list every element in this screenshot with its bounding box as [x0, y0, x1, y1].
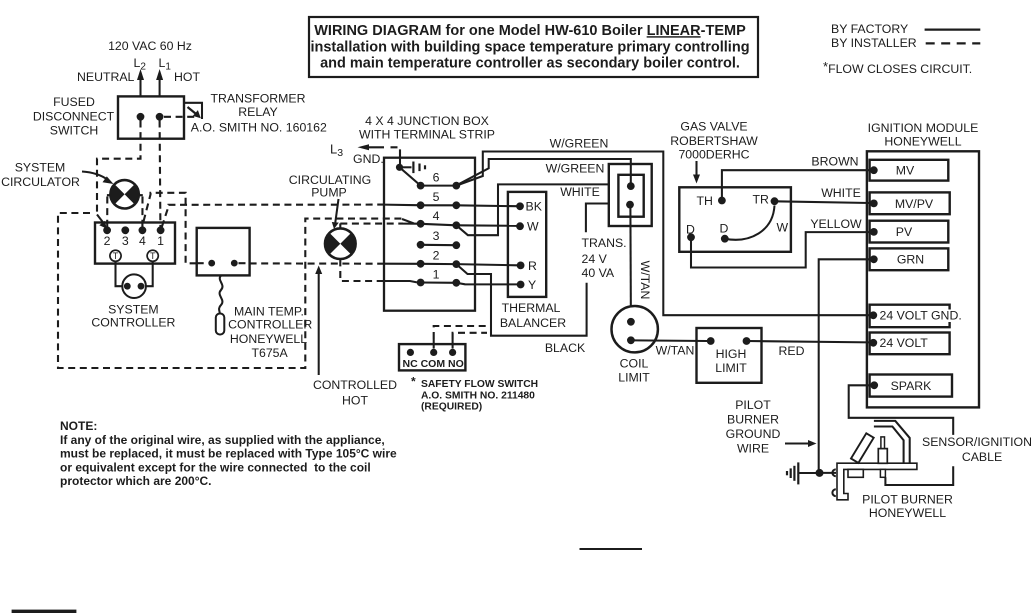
wire: dashed pump bottom stub down to junction row 1	[340, 259, 384, 281]
svg-text:WIRING DIAGRAM for one Model H: WIRING DIAGRAM for one Model HW-610 Boil…	[314, 23, 746, 39]
svg-text:WITH TERMINAL STRIP: WITH TERMINAL STRIP	[359, 128, 495, 142]
svg-text:HOT: HOT	[174, 70, 200, 84]
svg-text:If any of the original wire, a: If any of the original wire, as supplied…	[60, 433, 385, 447]
svg-text:FUSED: FUSED	[53, 95, 95, 109]
T terminal left	[110, 250, 121, 261]
legend: BY INSTALLER dashed line	[831, 36, 980, 50]
title box	[309, 17, 758, 77]
svg-text:GRN: GRN	[897, 253, 924, 267]
svg-text:6: 6	[433, 171, 440, 185]
ignition module outer box	[867, 151, 979, 407]
svg-text:40 VA: 40 VA	[582, 266, 615, 280]
wire: neutral dashed from left dot down-left-down to system controller 2	[97, 121, 141, 229]
circulating pump	[325, 228, 356, 259]
wire: sensor cable lower segment to igniter	[885, 466, 953, 485]
svg-text:TRANS.: TRANS.	[582, 236, 627, 250]
svg-text:MV: MV	[896, 164, 915, 178]
svg-text:(REQUIRED): (REQUIRED)	[421, 402, 482, 413]
svg-text:1: 1	[157, 234, 164, 248]
svg-text:T675A: T675A	[251, 346, 288, 360]
wire: YELLOW from D down around to PV	[691, 232, 870, 267]
bottom left black bar	[12, 610, 77, 613]
svg-text:R: R	[528, 259, 537, 273]
svg-text:W/TAN: W/TAN	[638, 261, 652, 300]
svg-text:TH: TH	[697, 194, 713, 208]
legend: BY FACTORY solid line	[831, 22, 980, 36]
wire: hot dashed from right dot down to system controller 1	[159, 121, 162, 227]
wire: terminal 2 to R	[456, 264, 517, 265]
svg-text:W/GREEN: W/GREEN	[546, 162, 605, 176]
wire: dashed pump right tab down to controller terminal 4	[141, 197, 143, 227]
wire: RED from high limit to 24 VOLT	[747, 341, 871, 342]
svg-text:WHITE: WHITE	[821, 186, 861, 200]
terminal MV/PV	[870, 192, 950, 214]
wire: solid row4 tail into junction box	[402, 219, 417, 224]
plug outlet symbol	[122, 274, 146, 298]
svg-text:4: 4	[139, 234, 146, 248]
svg-text:SYSTEM: SYSTEM	[15, 161, 66, 175]
svg-text:T: T	[113, 251, 119, 261]
svg-text:RED: RED	[779, 344, 805, 358]
wire: SPARK to sensor/ignition cable	[849, 385, 954, 435]
label PILOT BURNER GROUND WIRE	[726, 398, 781, 456]
wire L2 riser with up arrow	[137, 69, 144, 96]
label SENSOR/IGNITION CABLE	[922, 435, 1031, 464]
label MAIN TEMP. CONTROLLER HONEYWELL T675A	[228, 304, 312, 360]
wire: dashed pump top stub	[339, 223, 341, 228]
terminal MV	[870, 160, 949, 181]
pilot burner assembly	[832, 421, 917, 500]
svg-text:installation with building spa: installation with building space tempera…	[310, 39, 749, 55]
svg-text:PILOT BURNER: PILOT BURNER	[862, 493, 953, 507]
svg-text:LIMIT: LIMIT	[618, 371, 650, 385]
svg-text:BK: BK	[526, 200, 543, 214]
wire: GRN terminal to pilot ground riser	[819, 259, 870, 470]
svg-text:SPARK: SPARK	[891, 379, 933, 393]
svg-text:BY INSTALLER: BY INSTALLER	[831, 36, 917, 50]
svg-text:CIRCULATOR: CIRCULATOR	[1, 175, 80, 189]
transformer junction block outer	[609, 164, 652, 226]
safety flow switch	[399, 344, 465, 370]
svg-text:A.O. SMITH NO. 160162: A.O. SMITH NO. 160162	[191, 121, 327, 135]
svg-text:GND.: GND.	[353, 152, 384, 166]
terminal 4	[417, 209, 460, 229]
gas valve	[679, 187, 791, 252]
label CIRCULATING PUMP	[289, 173, 371, 200]
svg-text:W: W	[777, 221, 789, 235]
svg-text:HOT: HOT	[342, 394, 368, 408]
wire: W/GREEN no.2 from terminal 6 to transformer top	[458, 159, 631, 185]
wire: dashed from main temp controller right to junction row 2	[250, 262, 384, 264]
svg-text:NOTE:: NOTE:	[60, 419, 97, 433]
svg-text:HONEYWELL: HONEYWELL	[884, 135, 961, 149]
wire: right T to plug	[145, 261, 153, 286]
label FUSED DISCONNECT SWITCH	[33, 95, 115, 138]
svg-text:DISCONNECT: DISCONNECT	[33, 110, 115, 124]
thermal balancer	[508, 192, 546, 297]
svg-text:WHITE: WHITE	[560, 185, 600, 199]
svg-text:*: *	[411, 375, 416, 389]
svg-text:5: 5	[433, 190, 440, 204]
svg-text:BALANCER: BALANCER	[500, 316, 566, 330]
wire: L3 dashed entry with left arrow	[358, 144, 401, 164]
svg-text:24 V: 24 V	[582, 252, 608, 266]
transformer relay symbol (bracket and arrow)	[184, 103, 202, 119]
svg-text:W/TAN: W/TAN	[656, 344, 695, 358]
svg-text:D: D	[686, 223, 695, 237]
arrow ground wire pointer	[785, 440, 817, 447]
high limit	[697, 328, 762, 383]
wire: dashed diagonal from terminal 1 up to junction row 5 run	[162, 205, 384, 227]
svg-text:TR: TR	[753, 193, 770, 207]
svg-text:must be replaced, it must be r: must be replaced, it must be replaced wi…	[60, 447, 397, 461]
svg-text:HONEYWELL: HONEYWELL	[230, 332, 307, 346]
wire: W/GREEN no.1 from terminal 6 to 24 VOLT GND terminal	[456, 152, 870, 316]
transformer bottom dot	[626, 201, 634, 209]
svg-text:LIMIT: LIMIT	[715, 361, 747, 375]
svg-text:YELLOW: YELLOW	[810, 217, 862, 231]
pin labels 2 3 4 1	[104, 234, 165, 248]
wire: terminal 1 to Y	[456, 283, 517, 285]
T terminal right	[147, 250, 158, 261]
label PILOT BURNER HONEYWELL	[862, 493, 953, 521]
svg-text:CONTROLLER: CONTROLLER	[91, 316, 175, 330]
main temp controller sensing bulb	[216, 314, 225, 335]
wire: junction to pilot bracket	[820, 472, 837, 474]
svg-text:3: 3	[433, 229, 440, 243]
junction box	[384, 158, 475, 311]
svg-text:IGNITION MODULE: IGNITION MODULE	[868, 121, 979, 135]
svg-text:W/GREEN: W/GREEN	[550, 137, 609, 151]
terminal 24 VOLT	[869, 333, 949, 355]
label CONTROLLED HOT	[313, 378, 397, 408]
svg-text:120 VAC 60 Hz: 120 VAC 60 Hz	[108, 39, 192, 53]
terminal 24 VOLT GND.	[869, 305, 961, 328]
svg-text:WIRE: WIRE	[737, 442, 769, 456]
svg-text:CONTROLLER: CONTROLLER	[228, 318, 312, 332]
wire: dashed from relay contact right dot to relay arrow	[164, 116, 196, 118]
wire: solid row1 tail into junction box	[384, 281, 417, 282]
label SYSTEM CIRCULATOR	[1, 161, 80, 189]
wire: solid row5 tail into junction box	[384, 204, 417, 207]
wire: dashed pump left tab down to controller terminal 2	[106, 197, 108, 227]
chassis ground symbol	[787, 462, 816, 484]
wire: ground dot to terminal 6	[400, 167, 421, 185]
wire: BROWN from TH up and right to MV	[722, 170, 870, 200]
svg-text:BROWN: BROWN	[811, 154, 858, 168]
svg-text:SWITCH: SWITCH	[50, 124, 99, 138]
main temp controller capillary	[219, 275, 222, 313]
svg-text:4 X 4 JUNCTION BOX: 4 X 4 JUNCTION BOX	[365, 114, 489, 128]
terminal 2	[417, 249, 460, 269]
system circulator pump	[107, 180, 143, 208]
label THERMAL BALANCER	[500, 301, 566, 330]
svg-text:T: T	[150, 251, 156, 261]
svg-text:MV/PV: MV/PV	[895, 197, 934, 211]
terminal 6	[417, 171, 460, 190]
terminal 3	[417, 229, 460, 249]
coil limit	[612, 306, 658, 352]
svg-text:A.O. SMITH NO. 211480: A.O. SMITH NO. 211480	[421, 390, 535, 401]
wire: dashed diagonal from terminal 4 up to main-temp-controller run	[144, 193, 197, 263]
arrow from label to gas valve	[693, 161, 700, 184]
svg-text:PILOT: PILOT	[735, 398, 771, 412]
svg-text:MAIN TEMP.: MAIN TEMP.	[234, 304, 304, 318]
svg-text:CONTROLLED: CONTROLLED	[313, 378, 397, 392]
svg-text:1: 1	[433, 268, 440, 282]
svg-text:SAFETY FLOW SWITCH: SAFETY FLOW SWITCH	[421, 379, 538, 390]
arrow from label to system circulator	[82, 172, 114, 185]
wire: WHITE from terminal 4 to transformer left	[456, 184, 609, 235]
svg-text:4: 4	[433, 209, 440, 223]
wire: solid row2 tail into junction box	[384, 263, 417, 265]
svg-text:BY FACTORY: BY FACTORY	[831, 22, 908, 36]
svg-text:PUMP: PUMP	[311, 186, 347, 200]
svg-text:SENSOR/IGNITION: SENSOR/IGNITION	[922, 435, 1031, 449]
wire: flow switch NO dashed to black riser	[453, 333, 487, 349]
label TRANS. 24 V 40 VA	[582, 236, 627, 280]
wire: terminal 4 to W	[456, 224, 516, 227]
svg-text:GROUND: GROUND	[726, 427, 781, 441]
svg-text:COIL: COIL	[620, 357, 649, 371]
svg-text:24 VOLT: 24 VOLT	[880, 336, 929, 350]
svg-text:*FLOW CLOSES CIRCUIT.: *FLOW CLOSES CIRCUIT.	[823, 59, 972, 76]
svg-text:W: W	[527, 220, 539, 234]
terminal GRN	[870, 248, 949, 270]
ground symbol	[403, 162, 426, 174]
svg-text:NC COM NO: NC COM NO	[403, 358, 464, 370]
svg-text:ROBERTSHAW: ROBERTSHAW	[670, 134, 758, 148]
transformer junction block inner	[618, 175, 643, 217]
svg-text:RELAY: RELAY	[238, 105, 277, 119]
wire: W/TAN from coil limit to high limit	[631, 339, 707, 342]
svg-text:3: 3	[122, 234, 129, 248]
label GAS VALVE ROBERTSHAW 7000DERHC	[670, 120, 758, 162]
svg-text:2: 2	[433, 249, 440, 263]
svg-text:Y: Y	[528, 278, 536, 292]
svg-text:CABLE: CABLE	[962, 450, 1002, 464]
svg-text:or equivalent except for the w: or equivalent except for the wire connec…	[60, 460, 371, 474]
svg-text:2: 2	[104, 234, 111, 248]
wire L1 riser with up arrow	[156, 69, 163, 96]
label 4 X 4 JUNCTION BOX WITH TERMINAL STRIP	[359, 114, 495, 141]
system controller	[95, 223, 175, 264]
transformer top dot	[627, 182, 635, 190]
svg-text:THERMAL: THERMAL	[502, 301, 561, 315]
arrow CONTROLLED HOT pointing up at wire	[315, 266, 322, 376]
svg-text:NEUTRAL: NEUTRAL	[77, 70, 135, 84]
arrow from label to circulating pump	[332, 199, 339, 229]
svg-text:HONEYWELL: HONEYWELL	[869, 506, 946, 520]
wire: flow switch COM dashed to black riser	[434, 326, 487, 349]
terminal 1	[417, 268, 460, 287]
svg-text:D: D	[720, 222, 729, 236]
label SYSTEM CONTROLLER	[91, 303, 175, 330]
svg-text:SYSTEM: SYSTEM	[108, 303, 159, 317]
svg-text:protector which are 200°C.: protector which are 200°C.	[60, 474, 212, 488]
label SAFETY FLOW SWITCH note	[411, 375, 538, 413]
svg-text:BURNER: BURNER	[727, 413, 779, 427]
svg-text:TRANSFORMER: TRANSFORMER	[211, 92, 306, 106]
terminal SPARK	[870, 375, 952, 397]
ground terminal dot	[396, 164, 403, 171]
wire: installer dashed loop left (terminal 2 to row4 run)	[58, 213, 403, 368]
wire: WHITE from TR to MV/PV	[775, 201, 871, 203]
terminal 5	[417, 190, 460, 209]
wire: white stub to transformer label	[586, 204, 609, 233]
svg-text:BLACK: BLACK	[545, 341, 586, 355]
svg-text:7000DERHC: 7000DERHC	[678, 148, 749, 162]
label IGNITION MODULE HONEYWELL	[868, 121, 979, 149]
svg-text:HIGH: HIGH	[716, 347, 747, 361]
svg-text:GAS VALVE: GAS VALVE	[680, 120, 747, 134]
ground junction dot	[816, 469, 824, 477]
label NOTE block	[60, 419, 397, 488]
svg-text:24 VOLT GND.: 24 VOLT GND.	[880, 309, 962, 323]
svg-text:and main temperature controlle: and main temperature controller as secon…	[320, 55, 740, 71]
label COIL LIMIT	[618, 357, 650, 385]
wire: terminal 5 to BK	[456, 204, 516, 207]
terminal PV	[870, 221, 949, 243]
main temp controller box	[197, 228, 250, 276]
svg-text:PV: PV	[896, 225, 913, 239]
wire: W/TAN from transformer down to coil limit	[629, 208, 632, 322]
bottom center short line	[580, 548, 643, 550]
fused disconnect switch	[118, 96, 184, 138]
label TRANSFORMER RELAY A.O. SMITH NO. 160162	[191, 92, 327, 135]
wire: BLACK from terminal 2 to transformer lead	[456, 264, 586, 336]
wire: left T to plug	[116, 261, 125, 286]
